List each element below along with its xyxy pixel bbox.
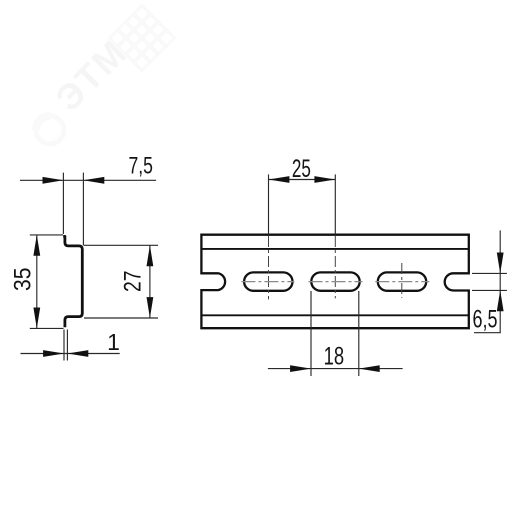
svg-text:1: 1: [107, 329, 120, 355]
svg-text:18: 18: [324, 342, 345, 370]
svg-text:25: 25: [292, 155, 311, 183]
svg-text:27: 27: [120, 270, 147, 292]
svg-text:7,5: 7,5: [128, 153, 153, 180]
svg-text:35: 35: [10, 268, 37, 292]
svg-text:6,5: 6,5: [473, 305, 498, 333]
